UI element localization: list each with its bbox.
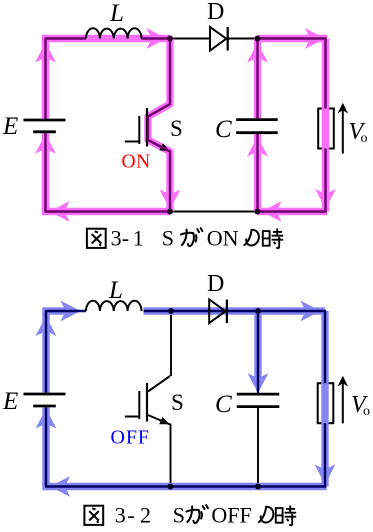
- output voltage arrow Vo top circuit: [342, 110, 344, 154]
- junction dot L/S top: [167, 36, 173, 42]
- capacitor C bottom circuit: [237, 393, 279, 396]
- load resistor R (output) bottom circuit: [318, 383, 334, 423]
- transistor switch S (IGBT) bottom circuit: [148, 376, 170, 392]
- wire highlight halo: right branch through load: [322, 39, 329, 212]
- current arrow up on left wire below top corner (blue): [36, 316, 57, 336]
- wire highlight halo: top right: [258, 35, 328, 42]
- svg-text:3: 3: [115, 503, 126, 528]
- diode D top circuit: [210, 27, 226, 51]
- svg-text:S: S: [171, 390, 184, 415]
- current arrow up on C branch below top junction: [247, 43, 268, 63]
- wire core: S branch zigzag: [148, 39, 170, 212]
- blue halo: top wire right of coil to corner: [144, 307, 326, 314]
- blue core: top wire to coil: [45, 310, 86, 312]
- wire core: bottom right: [258, 210, 327, 212]
- wire S branch black bottom circuit: [170, 311, 172, 376]
- blue halo: C branch above C: [254, 311, 261, 380]
- svg-text:ON: ON: [122, 152, 151, 173]
- current arrow down on right wire above bottom corner (blue): [315, 465, 336, 485]
- current arrow down on C branch above C (blue): [248, 373, 269, 393]
- current arrow down on right wire above bottom corner: [315, 189, 336, 209]
- wire core: coil end to S junction: [142, 37, 171, 39]
- wire highlight halo: S branch zigzag: [148, 39, 170, 212]
- wire highlight halo: bottom right: [258, 208, 328, 215]
- wire highlight halo: top wire through L coil: [42, 35, 170, 42]
- svg-text:S: S: [173, 503, 185, 528]
- svg-text:C: C: [215, 116, 232, 143]
- blue core: left branch: [45, 408, 47, 487]
- wire core: bottom left: [45, 210, 171, 212]
- svg-text:S: S: [162, 226, 174, 251]
- wire core: top right: [258, 37, 327, 39]
- svg-text:D: D: [207, 0, 224, 25]
- current arrow right on top wire at right corner: [305, 28, 325, 49]
- wire core: right branch skipping load: [324, 38, 326, 109]
- wire core: C branch: [256, 39, 258, 119]
- current arrow up on left wire below top corner: [35, 43, 56, 63]
- wire top black segment L-junction to D-junction: [170, 38, 258, 40]
- load resistor R (output) top circuit: [318, 109, 334, 149]
- svg-text:-: -: [127, 503, 134, 528]
- svg-text:D: D: [207, 271, 224, 297]
- capacitor C top circuit: [236, 118, 278, 121]
- wire bottom black segment S-junction to C-junction: [170, 211, 258, 213]
- svg-text:ON: ON: [207, 226, 239, 251]
- current arrow up below E: [35, 134, 56, 154]
- junction dot C bottom: [255, 209, 261, 215]
- svg-text:-: -: [122, 226, 129, 251]
- wire C branch black base upper: [257, 39, 259, 119]
- caption figure 3-1: [87, 229, 106, 248]
- current arrow down at bottom of S branch: [160, 190, 181, 210]
- inductor L coil top circuit: [86, 28, 142, 38]
- svg-text:L: L: [109, 0, 124, 27]
- blue halo: bottom wire: [42, 483, 326, 490]
- svg-text:3: 3: [111, 226, 122, 251]
- blue halo: top wire left of coil: [42, 307, 66, 314]
- wire core: top left to coil: [45, 37, 87, 39]
- svg-text:OFF: OFF: [211, 503, 251, 528]
- svg-text:C: C: [215, 391, 232, 418]
- current arrow up below E (blue): [36, 409, 57, 429]
- junction dot C bottom circuit bottom: [255, 484, 261, 490]
- blue core: bottom wire: [45, 485, 326, 487]
- inductor L coil bottom circuit: [86, 301, 142, 311]
- wire highlight halo: C branch below C: [254, 134, 261, 211]
- blue core: C branch above C: [257, 311, 259, 393]
- svg-text:2: 2: [140, 503, 151, 528]
- transistor switch S (IGBT) top circuit: [148, 104, 170, 117]
- blue halo: left branch through E: [42, 408, 49, 487]
- wire highlight halo: bottom left: [42, 208, 170, 215]
- current arrow left on bottom wire right of C junction: [262, 201, 282, 222]
- junction dot D/C bottom circuit top: [255, 308, 261, 314]
- junction dot L/S bottom circuit top: [168, 308, 174, 314]
- battery source E bottom circuit: [24, 393, 66, 396]
- svg-text:E: E: [2, 113, 18, 140]
- svg-text:o: o: [363, 404, 370, 419]
- svg-text:S: S: [170, 116, 183, 141]
- current arrow left on bottom wire near left corner (blue): [50, 476, 70, 497]
- caption figure 3-2: [84, 506, 103, 525]
- svg-text:o: o: [361, 131, 368, 146]
- current arrow up on C branch below C: [247, 137, 268, 157]
- current arrow right after L coil: [147, 28, 167, 49]
- junction dot S bottom: [167, 209, 173, 215]
- current arrow right on top wire before coil (blue): [61, 301, 81, 322]
- svg-text:L: L: [108, 277, 123, 304]
- junction dot S bottom circuit bottom: [168, 484, 174, 490]
- wire core: left branch: [44, 133, 46, 211]
- blue core: coil end to right corner: [144, 310, 327, 312]
- diode D bottom circuit: [209, 300, 225, 324]
- battery source E top circuit: [24, 119, 66, 122]
- svg-text:1: 1: [133, 226, 144, 251]
- svg-text:OFF: OFF: [111, 427, 150, 449]
- output voltage arrow Vo bottom circuit: [342, 383, 344, 423]
- current arrow left on bottom wire near left corner: [50, 201, 70, 222]
- wire C branch black base lower: [257, 134, 259, 212]
- svg-text:E: E: [2, 388, 18, 415]
- wire C branch below C black bottom circuit: [257, 406, 259, 486]
- blue core: right branch skipping load: [324, 310, 326, 383]
- wire highlight halo: C branch above C: [254, 39, 261, 119]
- junction dot D/C top: [255, 36, 261, 42]
- wire highlight halo: left branch through E: [42, 133, 49, 211]
- current arrow right on top wire near right corner (blue): [301, 301, 321, 322]
- blue halo: right branch through load: [321, 311, 328, 487]
